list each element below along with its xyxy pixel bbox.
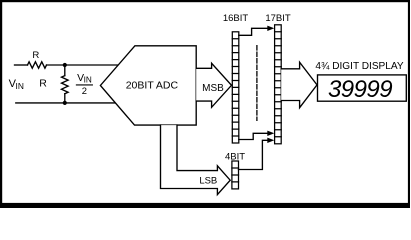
wire: carry arrow 16BIT bottom to 17BIT — [239, 133, 268, 139]
svg-text:R: R — [32, 50, 39, 61]
frame top border — [0, 0, 410, 2]
4BIT register ladder — [232, 161, 239, 189]
svg-text:2: 2 — [82, 85, 87, 96]
svg-text:IN: IN — [84, 75, 92, 84]
svg-text:39999: 39999 — [328, 76, 392, 103]
svg-text:20BIT ADC: 20BIT ADC — [126, 80, 179, 92]
resistor R2 (shunt R) — [62, 76, 69, 94]
svg-text:R: R — [39, 78, 47, 90]
display block arrow — [281, 62, 317, 107]
wire: VIN bottom lead to ADC lower input — [16, 102, 117, 104]
wire: R1 to ADC upper input — [47, 64, 120, 66]
frame left border — [0, 0, 2, 208]
svg-text:4BIT: 4BIT — [225, 151, 245, 162]
wire: VIN top lead — [15, 64, 28, 66]
fraction bar of VIN/2 — [76, 84, 92, 86]
svg-text:16BIT: 16BIT — [223, 13, 249, 24]
MSB block arrow — [196, 63, 231, 107]
dashed separator line — [256, 46, 258, 121]
wire: node A down to R2 — [64, 65, 66, 76]
svg-text:MSB: MSB — [202, 83, 224, 94]
svg-text:17BIT: 17BIT — [265, 13, 291, 24]
17BIT register ladder — [275, 25, 282, 144]
16BIT register ladder — [232, 32, 239, 143]
node A (top of divider) — [63, 63, 67, 67]
LSB block arrow (L-shaped) — [161, 125, 231, 195]
frame right border — [408, 0, 410, 208]
wire: R2 down to node B — [64, 94, 66, 103]
op-amp style block: 20BIT ADC — [100, 46, 196, 125]
display box — [318, 75, 407, 101]
node B (bottom of divider) — [63, 101, 67, 105]
wire: 4BIT to 17BIT connector — [239, 140, 268, 169]
svg-text:IN: IN — [16, 81, 24, 91]
svg-text:4¾ DIGIT DISPLAY: 4¾ DIGIT DISPLAY — [315, 61, 404, 72]
svg-text:LSB: LSB — [199, 175, 217, 186]
wire: carry arrow 16BIT top to 17BIT top — [239, 28, 268, 35]
frame bottom border — [0, 203, 410, 208]
resistor R1 (series R) — [28, 62, 47, 68]
